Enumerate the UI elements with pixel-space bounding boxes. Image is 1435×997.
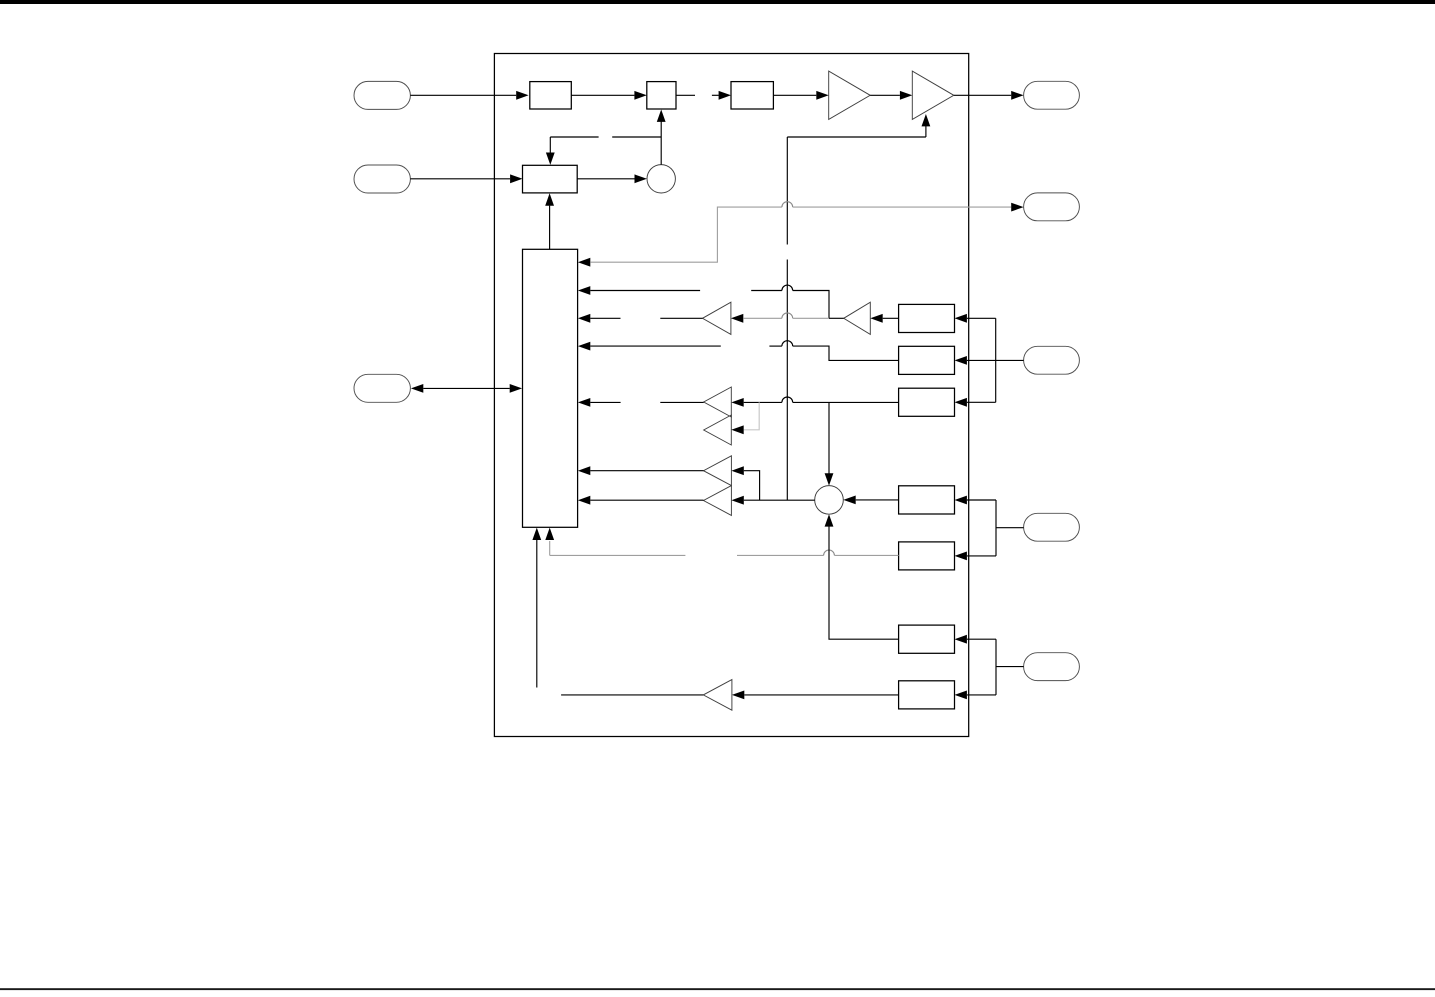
buffer A5 (row E, left-pointing) <box>704 387 732 417</box>
wire P2 to B4 <box>410 178 510 180</box>
wire bus to P6 <box>996 359 1024 361</box>
wire up into B5 bottom from R5 path <box>549 541 551 555</box>
wire bottom row left segment <box>561 694 703 696</box>
wire main vertical bus x787 lower <box>786 260 788 501</box>
wire arrow into A5 <box>731 398 743 407</box>
wire S2 output to A8 <box>744 499 815 501</box>
wire P3 bidirectional <box>423 387 509 389</box>
pad P1 (left input, top row) <box>354 81 410 109</box>
wire arrow into A3 <box>731 314 743 323</box>
page footer rule <box>0 988 1435 990</box>
block R5 <box>899 542 955 570</box>
wire row D hop <box>782 341 793 346</box>
wire row E mid segment to A5 <box>660 401 703 403</box>
wire row C gray hop <box>782 313 793 318</box>
wire branch y137 right segment <box>612 136 661 138</box>
buffer A2 (top row output driver) <box>912 71 954 119</box>
wire row C black to A4 apex <box>829 317 844 319</box>
wire row B arrow into B5 <box>578 286 590 295</box>
wire feedback up into A2 <box>925 126 927 137</box>
buffer A7 (row G, left-pointing) <box>704 456 732 486</box>
pad P3 (left bidirectional) <box>354 374 410 402</box>
wire arrow into R6 from bus <box>955 635 967 644</box>
wire R6 to S2 bottom <box>829 526 899 639</box>
wire branch y137 left segment <box>550 136 598 138</box>
wire B4 to S1 <box>577 178 634 180</box>
wire row C gray segment 2 <box>793 317 829 319</box>
wire row B hop <box>782 285 793 290</box>
wire arrow into A9 <box>732 691 744 700</box>
wire row B right segment <box>751 290 782 292</box>
block B5 (tall control block) <box>523 249 578 527</box>
wire gray elbow to A6 <box>744 402 760 429</box>
summing node S1 (top) <box>647 165 675 193</box>
buffer A4 (row C right, left-pointing) <box>844 302 871 334</box>
wire row E main from R3 <box>744 401 782 403</box>
wire row C arrow into B5 <box>578 314 590 323</box>
wire B2 out stub <box>676 94 695 96</box>
block R6 <box>899 625 955 653</box>
wire row B corner down <box>793 291 829 319</box>
wire row G arrow into B5 <box>578 466 590 475</box>
page header bar <box>0 0 1435 4</box>
block B2 (square, top row second) <box>647 82 676 109</box>
pad P2 (left input, second row) <box>354 165 410 193</box>
wire B5 top to B4 bottom <box>549 206 551 250</box>
wire vertical stub into B5 bottom <box>536 540 538 688</box>
block R1 <box>899 304 955 332</box>
summing node S2 (center) <box>815 486 844 515</box>
wire arrow into R1 from bus <box>955 314 967 323</box>
wire row C mid segment to A3 <box>660 317 702 319</box>
wire arrow into A8 <box>731 496 743 505</box>
buffer A1 (top row driver) <box>829 71 871 119</box>
wire bus to P8 <box>996 666 1024 668</box>
wire arrow into A6 <box>731 425 743 434</box>
bus vertical for P7 group <box>995 500 997 556</box>
wire R5 gray output left segment <box>550 554 686 556</box>
wire row H arrow into B5 <box>578 496 590 505</box>
wire row A gray hop <box>782 202 793 207</box>
wire R5 gray to box <box>834 554 898 556</box>
buffer A9 (bottom row, left-pointing) <box>703 680 732 711</box>
wire bus to R5 <box>967 555 996 557</box>
wire R5 gray hop <box>824 550 835 555</box>
buffer A6 (row F, left-pointing) <box>704 415 732 445</box>
IC boundary U1 <box>494 54 968 737</box>
block B3 (top row third) <box>731 82 773 109</box>
wire row D step to R2 <box>793 346 899 360</box>
wire row E hop <box>782 397 793 402</box>
wire row C left segment <box>590 317 620 319</box>
wire B1 to B2 <box>571 94 634 96</box>
wire branch down into B4 top <box>549 137 551 153</box>
wire arrow into R2 from bus <box>955 356 967 365</box>
wire row E arrow into B5 <box>578 398 590 407</box>
wire junction down to S2 top <box>828 402 830 473</box>
block R7 <box>899 681 955 709</box>
wire row E to R3 <box>793 401 899 403</box>
pad P6 (right input, middle) <box>1024 346 1080 374</box>
wire row G segment <box>590 470 703 472</box>
pad P5 (right output, second) <box>1024 193 1080 221</box>
wire B3 to A1 <box>773 94 816 96</box>
block R2 <box>899 346 955 374</box>
wire arrow into R4 from bus <box>955 496 967 505</box>
wire main vertical bus x787 upper <box>786 137 788 245</box>
wire row E left segment <box>590 401 620 403</box>
wire row D arrow into B5 <box>578 342 590 351</box>
wire row H segment <box>590 499 703 501</box>
wire R7 to A9 <box>744 694 898 696</box>
wire P1 to B1 <box>410 94 516 96</box>
pad P8 (right input, bottom) <box>1024 653 1080 681</box>
wire row A gray to P5 <box>793 206 1012 208</box>
wire R5 gray output right segment <box>737 554 824 556</box>
wire row B left segment <box>590 290 700 292</box>
wire A1 to A2 <box>870 94 900 96</box>
block B4 (second row) <box>523 165 578 193</box>
wire arrow into A4 from R1 <box>870 314 882 323</box>
wire arrow into R3 from bus <box>955 398 967 407</box>
bus vertical for P8 group <box>995 639 997 695</box>
buffer A3 (row C, left-pointing) <box>703 302 731 334</box>
wire bus to R7 <box>967 694 996 696</box>
wire arrow into A7 <box>731 466 743 475</box>
buffer A8 (row H, left-pointing) <box>704 486 732 516</box>
wire row D left segment <box>590 345 721 347</box>
wire arrow into S2 right <box>843 496 855 505</box>
bus vertical for P6 group <box>995 318 997 402</box>
wire row C gray segment <box>743 317 782 319</box>
wire elbow A7 feed <box>744 471 760 501</box>
wire bus to P7 <box>996 527 1024 529</box>
wire row A gray path <box>590 207 782 262</box>
block B1 (top row first) <box>530 82 572 109</box>
wire feedback horizontal <box>787 136 926 138</box>
block R4 <box>899 486 955 514</box>
wire row A arrow into B5 <box>578 258 590 267</box>
wire S1 up to B2 <box>660 122 662 165</box>
wire into B3 <box>712 94 719 96</box>
wire A2 to P4 <box>954 94 1011 96</box>
pad P7 (right input, lower middle) <box>1024 513 1080 541</box>
pad P4 (right output, top) <box>1024 81 1080 109</box>
block R3 <box>899 388 955 416</box>
wire row D right segment <box>769 345 782 347</box>
